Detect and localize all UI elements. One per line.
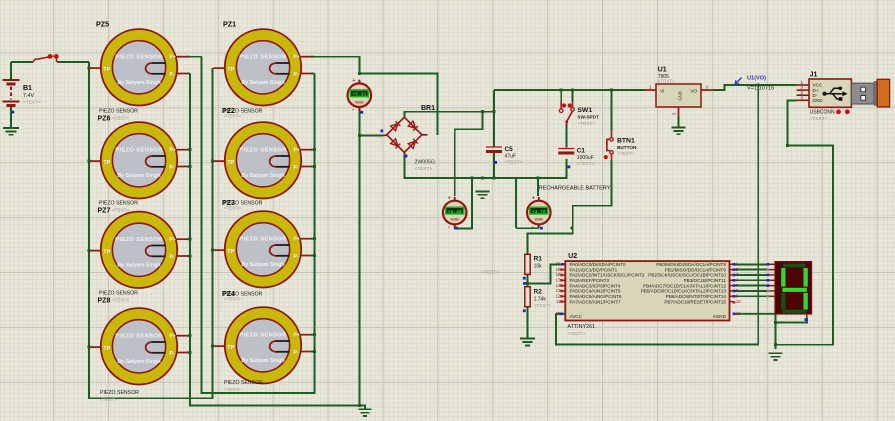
svg-text:+: +	[532, 196, 535, 202]
svg-text:VI: VI	[660, 88, 664, 93]
svg-text:VO: VO	[690, 88, 697, 93]
svg-text:C1: C1	[577, 148, 586, 155]
svg-text:<TEXT>: <TEXT>	[112, 208, 129, 213]
svg-text:<TEXT>: <TEXT>	[481, 270, 499, 276]
svg-text:2W005G: 2W005G	[415, 160, 435, 166]
svg-text:<TEXT>: <TEXT>	[577, 121, 595, 127]
svg-text:U1(VO): U1(VO)	[747, 76, 766, 82]
svg-text:+5.31: +5.31	[352, 92, 366, 98]
svg-text:PA5/ADC4/AIN2/PCINT5: PA5/ADC4/AIN2/PCINT5	[570, 289, 621, 294]
svg-text:<TEXT>: <TEXT>	[23, 100, 41, 106]
svg-text:B1: B1	[23, 85, 32, 92]
svg-text:J1: J1	[810, 72, 818, 79]
svg-text:<TEXT>: <TEXT>	[534, 303, 552, 309]
svg-text:PA7/ADC6/AIN1/PCINT7: PA7/ADC6/AIN1/PCINT7	[570, 299, 621, 304]
svg-text:PB4/ADC7/OC1D/CLKI/XTAL1/PCINT: PB4/ADC7/OC1D/CLKI/XTAL1/PCINT12	[643, 283, 726, 288]
svg-text:PB0/MOSI/DI/SDA/OC1A/PCINT8: PB0/MOSI/DI/SDA/OC1A/PCINT8	[656, 262, 726, 267]
svg-text:-: -	[448, 225, 450, 231]
svg-text:BUTTON: BUTTON	[617, 145, 637, 150]
svg-text:BR1: BR1	[421, 105, 435, 112]
svg-text:PZ5: PZ5	[96, 20, 109, 29]
svg-text:<TEXT>: <TEXT>	[505, 160, 523, 166]
svg-text:PZ7: PZ7	[98, 208, 111, 215]
svg-text:PZ6: PZ6	[98, 116, 111, 123]
svg-text:+4.48: +4.48	[448, 209, 462, 215]
svg-text:<TEXT>: <TEXT>	[577, 161, 595, 167]
svg-text:<TEXT>: <TEXT>	[224, 114, 241, 119]
svg-text:C5: C5	[505, 146, 514, 153]
svg-text:PA3/AREF/PCINT3: PA3/AREF/PCINT3	[570, 278, 610, 283]
svg-text:PA6/ADC5/AING/PCINT6: PA6/ADC5/AING/PCINT6	[570, 294, 622, 299]
svg-text:1000uF: 1000uF	[577, 155, 594, 161]
svg-text:BTN1: BTN1	[617, 138, 635, 145]
svg-text:R1: R1	[534, 256, 543, 263]
svg-text:<TEXT>: <TEXT>	[224, 206, 241, 211]
svg-text:<TEXT>: <TEXT>	[224, 297, 241, 302]
svg-text:47uF: 47uF	[505, 153, 516, 159]
svg-text:1.74k: 1.74k	[534, 297, 547, 303]
svg-text:GND: GND	[678, 91, 683, 100]
svg-text:20: 20	[556, 262, 561, 267]
svg-text:10: 10	[736, 299, 741, 304]
svg-text:Volts: Volts	[450, 218, 459, 222]
svg-text:PB1/MISO/DO/OC1A/PCINT9: PB1/MISO/DO/OC1A/PCINT9	[665, 267, 727, 272]
svg-text:PB7/ADC10/RESET/PCINT15: PB7/ADC10/RESET/PCINT15	[664, 299, 726, 304]
svg-text:10k: 10k	[534, 264, 543, 270]
svg-text:+: +	[448, 196, 451, 202]
svg-text:GND: GND	[813, 98, 824, 103]
svg-text:-: -	[352, 108, 354, 114]
svg-text:V=1.10716: V=1.10716	[747, 86, 774, 92]
svg-text:PB3/OC1B/PCINT11: PB3/OC1B/PCINT11	[684, 278, 727, 283]
svg-text:+: +	[352, 78, 355, 84]
svg-text:U2: U2	[568, 253, 577, 260]
svg-text:RECHARGEABLE BATTERY: RECHARGEABLE BATTERY	[539, 185, 611, 191]
svg-text:PIEZO SENSOR: PIEZO SENSOR	[100, 390, 139, 396]
svg-text:<TEXT>: <TEXT>	[112, 116, 129, 121]
svg-text:PIEZO SENSOR: PIEZO SENSOR	[99, 109, 138, 115]
svg-text:R2: R2	[534, 289, 543, 296]
svg-text:ATTINY261: ATTINY261	[567, 324, 595, 330]
svg-text:PZ8: PZ8	[98, 298, 111, 305]
svg-text:USBCONN: USBCONN	[810, 110, 835, 116]
svg-text:AVCC: AVCC	[570, 314, 583, 319]
svg-text:Volts: Volts	[535, 218, 544, 222]
svg-text:PIEZO SENSOR: PIEZO SENSOR	[224, 380, 263, 386]
svg-text:U1: U1	[658, 67, 667, 74]
svg-text:<TEXT>: <TEXT>	[567, 331, 585, 337]
svg-text:<TEXT>: <TEXT>	[224, 387, 241, 392]
svg-text:-: -	[532, 225, 534, 231]
svg-text:PIEZO SENSOR: PIEZO SENSOR	[99, 291, 138, 297]
svg-text:<TEXT>: <TEXT>	[810, 116, 828, 122]
svg-text:<TEXT>: <TEXT>	[112, 298, 129, 303]
svg-text:PB6/ADC9/INT0/T0/PCINT14: PB6/ADC9/INT0/T0/PCINT14	[666, 294, 727, 299]
svg-text:<TEXT>: <TEXT>	[617, 151, 635, 157]
svg-text:PA2/ADC2/INT1/USCK/SCL/PCINT2: PA2/ADC2/INT1/USCK/SCL/PCINT2	[570, 273, 645, 278]
svg-text:<TEXT>: <TEXT>	[100, 397, 117, 402]
svg-text:16: 16	[736, 311, 741, 316]
svg-text:SW-SPDT: SW-SPDT	[577, 115, 599, 120]
svg-text:PA4/ADC3/ICP0/PCINT4: PA4/ADC3/ICP0/PCINT4	[570, 283, 621, 288]
svg-text:PA0/ADC0/DI/SDA/PCINT0: PA0/ADC0/DI/SDA/PCINT0	[570, 262, 627, 267]
svg-text:Volts: Volts	[355, 100, 364, 104]
svg-text:SW1: SW1	[577, 107, 592, 114]
svg-text:PB5/ADC8/OC1D/CLKO/XTAL2/PCINT: PB5/ADC8/OC1D/CLKO/XTAL2/PCINT13	[641, 289, 727, 294]
svg-text:<TEXT>: <TEXT>	[658, 79, 675, 84]
svg-text:7.4V: 7.4V	[23, 93, 34, 99]
svg-text:+3.78: +3.78	[532, 209, 546, 215]
svg-text:PZ1: PZ1	[223, 20, 236, 29]
svg-text:PB2/SCK/USCK/SCL/OC1B/PCINT10: PB2/SCK/USCK/SCL/OC1B/PCINT10	[648, 273, 726, 278]
svg-text:<TEXT>: <TEXT>	[415, 166, 433, 172]
svg-text:PIEZO SENSOR: PIEZO SENSOR	[99, 201, 138, 207]
svg-text:PA1/ADC1/DO/PCINT1: PA1/ADC1/DO/PCINT1	[570, 267, 618, 272]
svg-text:AGND: AGND	[713, 314, 727, 319]
